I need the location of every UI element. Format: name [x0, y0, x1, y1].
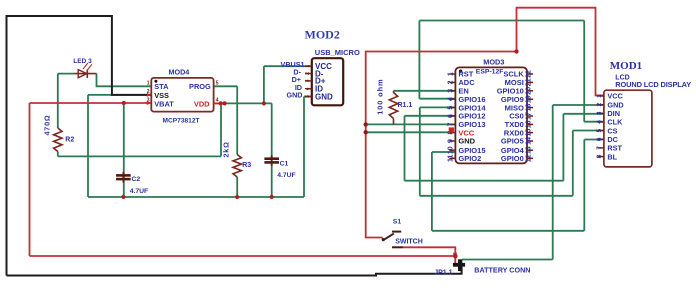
svg-text:R3: R3	[242, 162, 251, 169]
svg-text:2kΩ: 2kΩ	[221, 141, 230, 157]
svg-text:VDD: VDD	[194, 99, 210, 108]
svg-text:4: 4	[596, 120, 603, 124]
svg-text:BL: BL	[607, 152, 617, 161]
svg-text:MOD4: MOD4	[169, 68, 190, 77]
svg-text:9: 9	[447, 139, 454, 143]
svg-text:R2: R2	[65, 137, 74, 144]
svg-text:100 ohm: 100 ohm	[375, 79, 384, 115]
svg-text:MCP73812T: MCP73812T	[163, 117, 200, 124]
svg-text:21: 21	[525, 78, 532, 86]
svg-text:2: 2	[305, 72, 311, 75]
svg-text:6: 6	[596, 137, 603, 141]
svg-text:4.7UF: 4.7UF	[130, 188, 149, 195]
svg-text:GND: GND	[607, 100, 623, 109]
svg-text:GPIO2: GPIO2	[458, 154, 481, 163]
svg-text:S1: S1	[393, 219, 402, 226]
svg-text:20: 20	[525, 87, 532, 95]
svg-text:7: 7	[596, 146, 603, 150]
svg-text:R1.1: R1.1	[398, 102, 413, 109]
svg-text:17: 17	[525, 112, 532, 120]
svg-text:GND: GND	[458, 137, 475, 146]
svg-text:7: 7	[447, 122, 454, 126]
svg-text:470Ω: 470Ω	[43, 115, 52, 136]
svg-text:VCC: VCC	[607, 92, 623, 101]
svg-text:RST: RST	[607, 144, 622, 153]
svg-text:GPIO5: GPIO5	[501, 137, 524, 146]
svg-text:LED 3: LED 3	[73, 58, 92, 65]
svg-text:GPIO0: GPIO0	[501, 154, 524, 163]
svg-text:JP1.1: JP1.1	[434, 269, 452, 276]
svg-text:PROG: PROG	[189, 82, 211, 91]
svg-text:MOD1: MOD1	[610, 60, 642, 72]
svg-text:5: 5	[447, 106, 454, 110]
svg-text:15: 15	[525, 129, 532, 137]
svg-text:VBAT: VBAT	[154, 99, 174, 108]
svg-text:DIN: DIN	[607, 109, 620, 118]
svg-text:GND: GND	[315, 92, 333, 101]
svg-text:22: 22	[525, 70, 532, 78]
svg-text:4: 4	[305, 87, 311, 90]
svg-text:14: 14	[525, 137, 532, 145]
svg-text:3: 3	[596, 111, 603, 115]
svg-text:CLK: CLK	[607, 118, 623, 127]
svg-text:C2: C2	[132, 176, 141, 183]
svg-text:SWITCH: SWITCH	[395, 238, 423, 245]
svg-text:C1: C1	[280, 160, 289, 167]
svg-text:4: 4	[447, 97, 454, 101]
svg-text:USB_MICRO: USB_MICRO	[315, 48, 360, 57]
svg-text:2: 2	[596, 102, 603, 106]
svg-text:18: 18	[525, 104, 532, 112]
svg-text:2: 2	[447, 80, 454, 84]
svg-text:4.7UF: 4.7UF	[277, 172, 296, 179]
svg-text:1: 1	[305, 65, 311, 68]
svg-text:10: 10	[447, 146, 454, 154]
svg-text:DC: DC	[607, 135, 618, 144]
svg-text:1: 1	[147, 80, 150, 86]
svg-text:3: 3	[447, 89, 454, 93]
svg-text:1: 1	[447, 72, 454, 76]
svg-text:CS: CS	[607, 126, 617, 135]
svg-text:3: 3	[305, 79, 311, 82]
svg-text:12: 12	[525, 154, 532, 162]
svg-text:16: 16	[525, 120, 532, 128]
svg-text:19: 19	[525, 95, 532, 103]
svg-text:4: 4	[216, 97, 219, 103]
svg-text:MOD3: MOD3	[483, 57, 504, 66]
svg-text:5: 5	[596, 128, 603, 132]
svg-text:8: 8	[596, 154, 603, 158]
svg-text:1: 1	[596, 94, 603, 98]
svg-text:5: 5	[305, 95, 311, 98]
svg-text:ROUND LCD DISPLAY: ROUND LCD DISPLAY	[615, 80, 691, 89]
svg-text:MOD2: MOD2	[305, 28, 340, 42]
svg-text:13: 13	[525, 146, 532, 154]
svg-text:5: 5	[216, 80, 219, 86]
svg-text:6: 6	[447, 114, 454, 118]
svg-text:GND: GND	[287, 91, 303, 100]
svg-text:BATTERY CONN: BATTERY CONN	[474, 266, 530, 275]
svg-text:11: 11	[447, 154, 454, 162]
svg-text:ESP-12F: ESP-12F	[476, 68, 504, 75]
